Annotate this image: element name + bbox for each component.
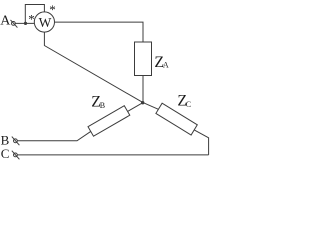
wire ZA to star point <box>142 76 144 103</box>
svg-text:A: A <box>163 60 169 69</box>
impedance ZC box <box>156 103 197 135</box>
wire B to ZB <box>17 131 90 140</box>
svg-text:C: C <box>1 146 10 161</box>
svg-text:*: * <box>49 2 56 17</box>
svg-text:*: * <box>28 11 35 26</box>
wire ZC to C line <box>194 130 208 155</box>
wire W bottom to star point <box>44 32 143 103</box>
terminal B <box>12 137 20 146</box>
wire phase A to wattmeter current coil <box>15 22 34 24</box>
impedance ZB box <box>88 106 130 137</box>
svg-text:B: B <box>100 101 105 110</box>
wire star point to ZC <box>143 103 158 110</box>
wire C <box>17 154 208 156</box>
impedance ZA box <box>135 42 152 76</box>
wattmeter W (meter circle) <box>34 12 54 32</box>
wire W to ZA <box>55 22 144 42</box>
node star point <box>141 101 144 104</box>
svg-text:W: W <box>39 15 52 30</box>
wire voltage-coil loop <box>25 5 44 24</box>
wire ZB to star point <box>128 103 143 112</box>
terminal C <box>12 151 20 160</box>
node voltage-coil tap on phase A <box>24 22 27 25</box>
terminal A <box>11 20 18 28</box>
svg-text:C: C <box>186 100 191 109</box>
svg-text:A: A <box>0 14 11 29</box>
